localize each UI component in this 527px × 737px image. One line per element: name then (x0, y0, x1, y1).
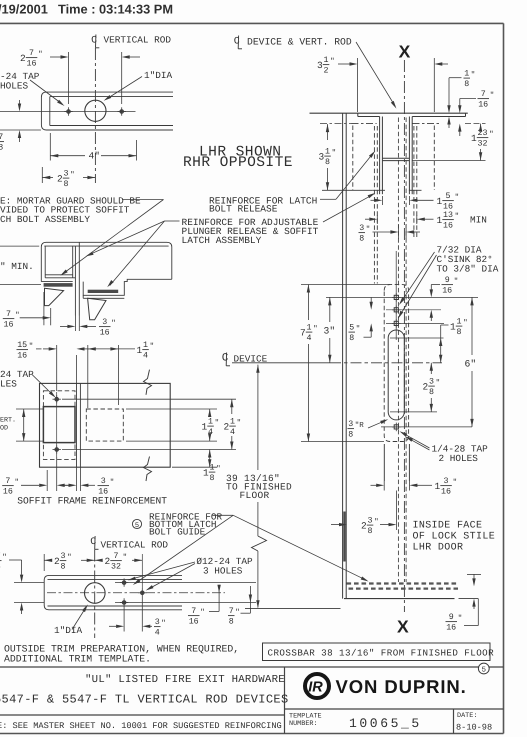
soffit mortar guard bar right (88, 290, 119, 293)
latch screw hole 4 (394, 425, 398, 429)
svg-text:5: 5 (482, 667, 487, 675)
dim 1-1/4 top arrows (88, 347, 96, 350)
svg-text:2 HOLES: 2 HOLES (439, 453, 479, 464)
dim 7-1/4 line (307, 285, 310, 293)
svg-text:8: 8 (368, 527, 373, 536)
svg-text:LHR DOOR: LHR DOOR (413, 543, 464, 554)
trim hole line mid (47, 592, 225, 594)
plate screw hole bottom (55, 448, 59, 452)
reinforcement plate rectangle (40, 383, 171, 467)
svg-text:SOFFIT FRAME REINFORCEMENT: SOFFIT FRAME REINFORCEMENT (17, 496, 167, 507)
hidden plate left outer (352, 126, 354, 191)
svg-text:1: 1 (324, 56, 329, 65)
reinforcement bottom edge left (372, 189, 385, 191)
svg-text:8: 8 (359, 235, 364, 244)
svg-text:/19/2001: /19/2001 (0, 2, 48, 17)
svg-text:": " (330, 57, 335, 66)
svg-text:4: 4 (143, 352, 148, 361)
lock stile outer edge (342, 113, 344, 598)
leader reinforce latch right (320, 198, 336, 200)
svg-text:5547-F & 5547-F TL VERTICAL RO: 5547-F & 5547-F TL VERTICAL ROD DEVICES (0, 693, 289, 707)
dim 3/8 rod ext stubs (397, 225, 399, 239)
right extension pocket top (126, 408, 217, 410)
right extension hole2 (62, 449, 236, 451)
lock stile thick reinforcement bar (343, 512, 345, 562)
svg-text:16: 16 (4, 321, 14, 330)
svg-text:": " (313, 325, 318, 334)
latch slot bottom line (390, 411, 437, 413)
svg-text:": " (2, 553, 7, 562)
svg-text:9: 9 (449, 613, 454, 622)
svg-text:1: 1 (450, 322, 456, 333)
latch slot obround (388, 330, 404, 420)
leader -24 TAP to hole (30, 80, 62, 104)
svg-text:1: 1 (437, 215, 443, 226)
vertical rod centerline (trim) (94, 550, 96, 639)
frame tube hidden outline (43, 391, 75, 460)
svg-text:3": 3" (324, 326, 336, 337)
soffit inner top line (44, 245, 168, 247)
svg-text:2: 2 (54, 556, 60, 567)
svg-text:16: 16 (441, 488, 451, 497)
svg-text:7: 7 (6, 310, 11, 319)
hidden reinforcement top right (413, 123, 442, 125)
latch screw centerline vertical (395, 251, 397, 340)
svg-text:C: C (222, 353, 229, 365)
drawing frame border (0, 22, 504, 24)
leader adjustable connector (165, 220, 180, 222)
door top line (310, 112, 468, 114)
svg-text:3: 3 (368, 517, 373, 526)
svg-text:3: 3 (64, 170, 69, 179)
svg-text:": " (38, 50, 43, 59)
svg-text:": " (15, 311, 20, 320)
soffit latch bolt fin left (45, 288, 64, 305)
svg-text:32: 32 (478, 140, 488, 149)
soffit partition walls (74, 246, 76, 315)
dim 2-7/32 trim arrows (95, 559, 103, 562)
svg-text:": " (123, 553, 128, 562)
svg-text:": " (455, 193, 460, 202)
leader csink to hole2 (401, 252, 435, 303)
door top second line (358, 116, 380, 118)
dim 9/16 top right (431, 284, 440, 286)
svg-text:4: 4 (230, 428, 235, 437)
svg-text:16: 16 (446, 624, 456, 633)
svg-text:": " (471, 71, 476, 80)
svg-text:16: 16 (478, 101, 488, 110)
svg-text:3: 3 (317, 60, 323, 71)
svg-text:3: 3 (155, 618, 160, 627)
svg-text:2: 2 (20, 53, 26, 64)
svg-text:MIN: MIN (470, 214, 487, 225)
dim 2-3/8 trim arrows (44, 559, 52, 562)
dim 5/8 line (370, 298, 372, 303)
circled 5 mark (478, 663, 489, 674)
crossbar hidden line row2 (349, 587, 459, 589)
svg-text:4: 4 (155, 629, 160, 638)
svg-text:7: 7 (481, 90, 486, 99)
head mounting hole left (67, 110, 71, 114)
svg-text:": " (453, 478, 458, 487)
svg-text:2: 2 (105, 556, 111, 567)
dim 9/16 bottom (467, 573, 481, 575)
svg-text:16: 16 (189, 618, 199, 627)
trim plate inner bottom line (48, 605, 183, 607)
leader csink to hole3 (400, 255, 437, 316)
dim 4 extension lines (49, 133, 51, 161)
dim 1-1/4 top extensions (87, 345, 89, 408)
svg-text:RHR OPPOSITE: RHR OPPOSITE (183, 155, 293, 171)
svg-text:": " (454, 277, 459, 286)
svg-text:X: X (399, 42, 411, 62)
title block left cell divider (284, 667, 286, 734)
svg-text:IR: IR (308, 680, 323, 696)
leader device centerline (356, 42, 395, 106)
svg-text:16: 16 (27, 60, 37, 69)
svg-text:7: 7 (114, 552, 119, 561)
trim hole right (140, 591, 144, 595)
right extension pocket bottom (126, 440, 217, 442)
leader adjustable branch b (110, 221, 165, 286)
title block date divider (453, 709, 455, 734)
dim 1-23/32 line (480, 124, 482, 127)
trim hole top (122, 581, 126, 585)
svg-text:BOLT GUIDE: BOLT GUIDE (149, 527, 206, 538)
svg-text:4: 4 (307, 334, 312, 343)
svg-text:7: 7 (29, 49, 34, 58)
finished floor line (245, 607, 341, 609)
leader bottom latch to crossbar (233, 515, 366, 580)
svg-text:": " (463, 319, 468, 328)
leader 3/8R (368, 421, 386, 429)
svg-text:13: 13 (443, 211, 453, 220)
leader bottom latch apex (213, 514, 234, 516)
svg-text:": " (458, 614, 463, 623)
svg-text:": " (489, 130, 494, 139)
svg-text:8: 8 (457, 328, 462, 337)
dim 2-3/8 latch (430, 363, 433, 371)
dim 7-1/4 ext bottom (301, 441, 384, 443)
head mounting hole right (120, 110, 124, 114)
svg-text:LES: LES (0, 379, 17, 390)
svg-text:2: 2 (224, 422, 230, 433)
svg-text:1: 1 (464, 70, 469, 79)
svg-text:16: 16 (100, 329, 110, 338)
hidden plate left inner pair (373, 126, 375, 284)
latch screw hole 3 (394, 321, 398, 325)
svg-text:": " (110, 478, 115, 487)
svg-text:": " (455, 212, 460, 221)
head template inner left line (49, 97, 51, 126)
svg-text:VERTICAL ROD: VERTICAL ROD (104, 35, 172, 46)
svg-text:ERT.: ERT. (0, 417, 16, 425)
plate break mark bottom (144, 457, 152, 482)
hidden line ext right (465, 123, 486, 125)
right extension hole1 (62, 398, 236, 400)
svg-text:7: 7 (300, 328, 306, 339)
dim 3/4 trim extensions (123, 606, 125, 632)
svg-text:": " (332, 149, 337, 158)
svg-text:": " (67, 553, 72, 562)
svg-text:1: 1 (208, 418, 213, 427)
svg-text:"UL" LISTED FIRE EXIT HARDWARE: "UL" LISTED FIRE EXIT HARDWARE (85, 674, 285, 686)
svg-text:DATE:: DATE: (457, 712, 477, 720)
svg-text:6": 6" (465, 359, 477, 370)
reinforcement bottom edge right (409, 189, 422, 191)
dim 7/8 trim right (249, 586, 251, 613)
svg-text:5: 5 (446, 192, 451, 201)
svg-text:OD: OD (0, 425, 8, 433)
latch case bottom ext left (383, 481, 385, 491)
leader adjustable right (323, 194, 374, 222)
svg-text:8: 8 (0, 563, 1, 572)
trim hole line bottom (115, 602, 256, 604)
head template outline (41, 92, 173, 130)
plate hole centerline vertical (56, 392, 58, 457)
dim 1-1/8 latch (440, 325, 442, 338)
dim 3/16 soffit arrows (60, 325, 68, 327)
soffit plunger fin right (88, 298, 106, 320)
svg-text:": " (216, 465, 221, 474)
trim 1 inch hole (85, 583, 106, 604)
svg-text:NOTE: SEE MASTER SHEET NO. 100: NOTE: SEE MASTER SHEET NO. 10001 FOR SUG… (0, 721, 282, 731)
svg-text:23: 23 (478, 129, 488, 138)
latch case left wall (383, 444, 385, 481)
svg-text:1: 1 (435, 481, 441, 492)
svg-text:1"DIA: 1"DIA (54, 625, 83, 636)
dim 39-13/16 lower line with break (257, 502, 259, 536)
dim 3/4 trim arrows (109, 625, 116, 627)
rod channel notch left wall (379, 117, 381, 195)
dim 3-1/8 ext top (320, 123, 352, 125)
svg-text:10065_5: 10065_5 (349, 716, 422, 731)
rod channel notch bottom (382, 157, 409, 159)
svg-text:3: 3 (319, 152, 325, 163)
svg-text:INSIDE FACE: INSIDE FACE (413, 521, 483, 532)
svg-text:OF LOCK STILE: OF LOCK STILE (413, 532, 496, 543)
dim 2-3/8 arrows (42, 176, 50, 179)
svg-text:LATCH BOLT ASSEMBLY: LATCH BOLT ASSEMBLY (0, 214, 90, 225)
svg-text:VON DUPRIN.: VON DUPRIN. (336, 676, 467, 697)
svg-text:Time : 03:14:33 PM: Time : 03:14:33 PM (58, 2, 173, 17)
svg-text:7: 7 (0, 552, 1, 561)
svg-text:"R: "R (355, 421, 365, 430)
latch screw hole 1 (394, 295, 398, 299)
svg-text:8-10-98: 8-10-98 (456, 723, 492, 733)
svg-text:3: 3 (61, 552, 66, 561)
dim 3/8 rod arrows (373, 231, 391, 233)
dim 1-5/16 arrows (371, 199, 375, 201)
svg-text:7: 7 (191, 607, 196, 616)
svg-text:": " (15, 478, 20, 487)
right extension plate bottom (172, 466, 217, 468)
svg-text:": " (161, 619, 166, 628)
dim 9/16 bottom bracket (477, 599, 479, 626)
title block left note divider (0, 714, 285, 716)
rod centerline ext for 2-3/8 (396, 491, 398, 531)
device centerline horizontal (232, 362, 330, 364)
dim 1-1/4 right line (209, 409, 211, 414)
leader 1/4-28 b (408, 438, 430, 450)
device centerline vertical (403, 60, 405, 612)
plate break mark top (144, 370, 152, 395)
title block top line (0, 666, 504, 668)
hidden reinforcement top left (352, 123, 377, 125)
dim 1/8 bracket (449, 77, 462, 79)
head template inner top line (50, 96, 173, 98)
leader 1 DIA to circle (107, 77, 143, 100)
dim 1-1/8 right line (209, 450, 211, 468)
svg-text:": " (374, 518, 379, 527)
title block template row divider (285, 708, 504, 710)
svg-text:1: 1 (230, 418, 235, 427)
svg-text:": " (356, 325, 361, 334)
svg-text:ADDITIONAL TRIM TEMPLATE.: ADDITIONAL TRIM TEMPLATE. (4, 653, 151, 664)
door bottom ext right (459, 598, 479, 600)
head 1 inch rod hole (85, 100, 106, 121)
svg-text:CROSSBAR 38 13/16" FROM FINISH: CROSSBAR 38 13/16" FROM FINISHED FLOOR (268, 648, 495, 659)
svg-text:4": 4" (89, 150, 100, 161)
svg-text:8: 8 (349, 334, 354, 343)
svg-text:8: 8 (210, 474, 215, 483)
soffit right cell bottom profile (83, 279, 172, 295)
svg-text:FLOOR: FLOOR (240, 490, 270, 501)
dim 6 line (470, 297, 473, 305)
dim 3-1/2 extensions (357, 58, 359, 112)
latch hole4 line (381, 426, 472, 428)
svg-text:5: 5 (135, 522, 139, 530)
svg-text:1: 1 (202, 422, 208, 433)
svg-text:15: 15 (17, 341, 27, 350)
svg-text:1: 1 (137, 345, 143, 356)
svg-text:": " (70, 171, 75, 180)
leader 1 DIA trim (72, 607, 87, 630)
leader 12-24 to hole right (149, 564, 196, 590)
svg-text:2: 2 (57, 174, 63, 185)
dim 7/16 plate arrows (21, 484, 39, 486)
von duprin logo IR circle (305, 674, 329, 698)
svg-text:LATCH ASSEMBLY: LATCH ASSEMBLY (182, 235, 262, 246)
circled 5 note marker (132, 519, 141, 528)
leader adjustable branch a (88, 221, 165, 255)
svg-text:32: 32 (111, 563, 121, 572)
latch hole3 line (386, 322, 444, 324)
leader 1/4-28 a (402, 433, 430, 448)
svg-text:8: 8 (464, 80, 469, 89)
svg-text:16: 16 (17, 352, 27, 361)
svg-text:3 HOLES: 3 HOLES (203, 565, 243, 576)
hidden plate right outer (433, 126, 435, 191)
crossbar note box (263, 643, 491, 661)
svg-text:": " (215, 419, 220, 428)
svg-text:DEVICE & VERT. ROD: DEVICE & VERT. ROD (247, 37, 352, 48)
trim hole line top (115, 582, 256, 584)
svg-text:7: 7 (229, 607, 234, 616)
dim 3 line (328, 297, 331, 305)
svg-text:1: 1 (437, 196, 443, 207)
svg-text:": " (490, 91, 495, 100)
dim 4 line and arrows (50, 154, 58, 157)
leader 12-24 to hole top (131, 562, 196, 579)
dim 39-13/16 upper line (257, 365, 259, 470)
dim 3-1/8 line (326, 124, 329, 132)
svg-text:16: 16 (443, 222, 453, 231)
crossbar hidden line row1 (347, 582, 459, 584)
svg-text:8: 8 (229, 618, 234, 627)
latch screw hole 2 (394, 308, 398, 312)
dim 7/16 trim right (218, 585, 220, 612)
lock stile inner edge (345, 113, 347, 598)
svg-text:3: 3 (444, 477, 449, 486)
svg-text:16: 16 (442, 287, 452, 296)
device pocket hidden rect (86, 409, 123, 441)
dim 15/16 arrows (36, 348, 42, 350)
trim plate inner top line (48, 578, 183, 580)
rod channel notch right wall (408, 117, 410, 195)
svg-text:": " (235, 608, 240, 617)
svg-text:2: 2 (423, 382, 429, 393)
svg-text:3: 3 (102, 318, 107, 327)
svg-text:NUMBER:: NUMBER: (289, 720, 318, 728)
svg-text:": " (111, 319, 116, 328)
svg-text:X: X (397, 617, 409, 637)
svg-text:1: 1 (457, 318, 462, 327)
door bottom line (344, 598, 455, 600)
svg-text:TO 3/8" DIA: TO 3/8" DIA (437, 264, 499, 275)
svg-text:": " (150, 342, 155, 351)
svg-text:" MIN.: " MIN. (0, 261, 34, 272)
latch slot top line (390, 337, 444, 339)
dim 15/16 extensions (56, 345, 58, 391)
svg-text:8: 8 (64, 180, 69, 189)
trim hole bottom (122, 601, 126, 605)
svg-text:": " (237, 419, 242, 428)
svg-text:8: 8 (429, 388, 434, 397)
svg-text:3: 3 (348, 420, 353, 429)
svg-text:9: 9 (445, 276, 450, 285)
svg-text:8: 8 (348, 431, 353, 440)
svg-text:3: 3 (101, 477, 106, 486)
svg-text:1: 1 (325, 148, 330, 157)
vertical rod hidden left edge (397, 118, 399, 583)
svg-text:2: 2 (361, 521, 367, 532)
latch case right wall (408, 444, 410, 481)
hidden plate right inner pair (413, 126, 415, 238)
dim 2-1/4 right line (231, 399, 233, 414)
dim MIN extension lines (0, 245, 39, 247)
svg-text:1: 1 (307, 324, 312, 333)
left dim extensions (16, 408, 43, 410)
svg-text:1: 1 (471, 133, 477, 144)
dim 2-7/16 extension lines (68, 52, 70, 104)
soffit left cell inner walls (44, 246, 46, 278)
dim 2-3/8 stile arrows (331, 524, 339, 526)
svg-text:4: 4 (208, 428, 213, 437)
svg-text:1: 1 (143, 341, 148, 350)
dim 1-3/16 arrows (371, 484, 377, 486)
svg-text:1: 1 (210, 464, 215, 473)
svg-text:": " (29, 342, 34, 351)
leader bottom latch to trim holes (135, 515, 233, 583)
svg-text:16: 16 (3, 488, 13, 497)
head bottom edge extension (0, 129, 41, 131)
dim 7/8 left edge arrows (head) (19, 100, 21, 104)
soffit bottom left edge (41, 281, 72, 283)
latch hole1 line (326, 296, 478, 298)
svg-text:3: 3 (359, 224, 364, 233)
frame tube solid square (43, 407, 75, 443)
